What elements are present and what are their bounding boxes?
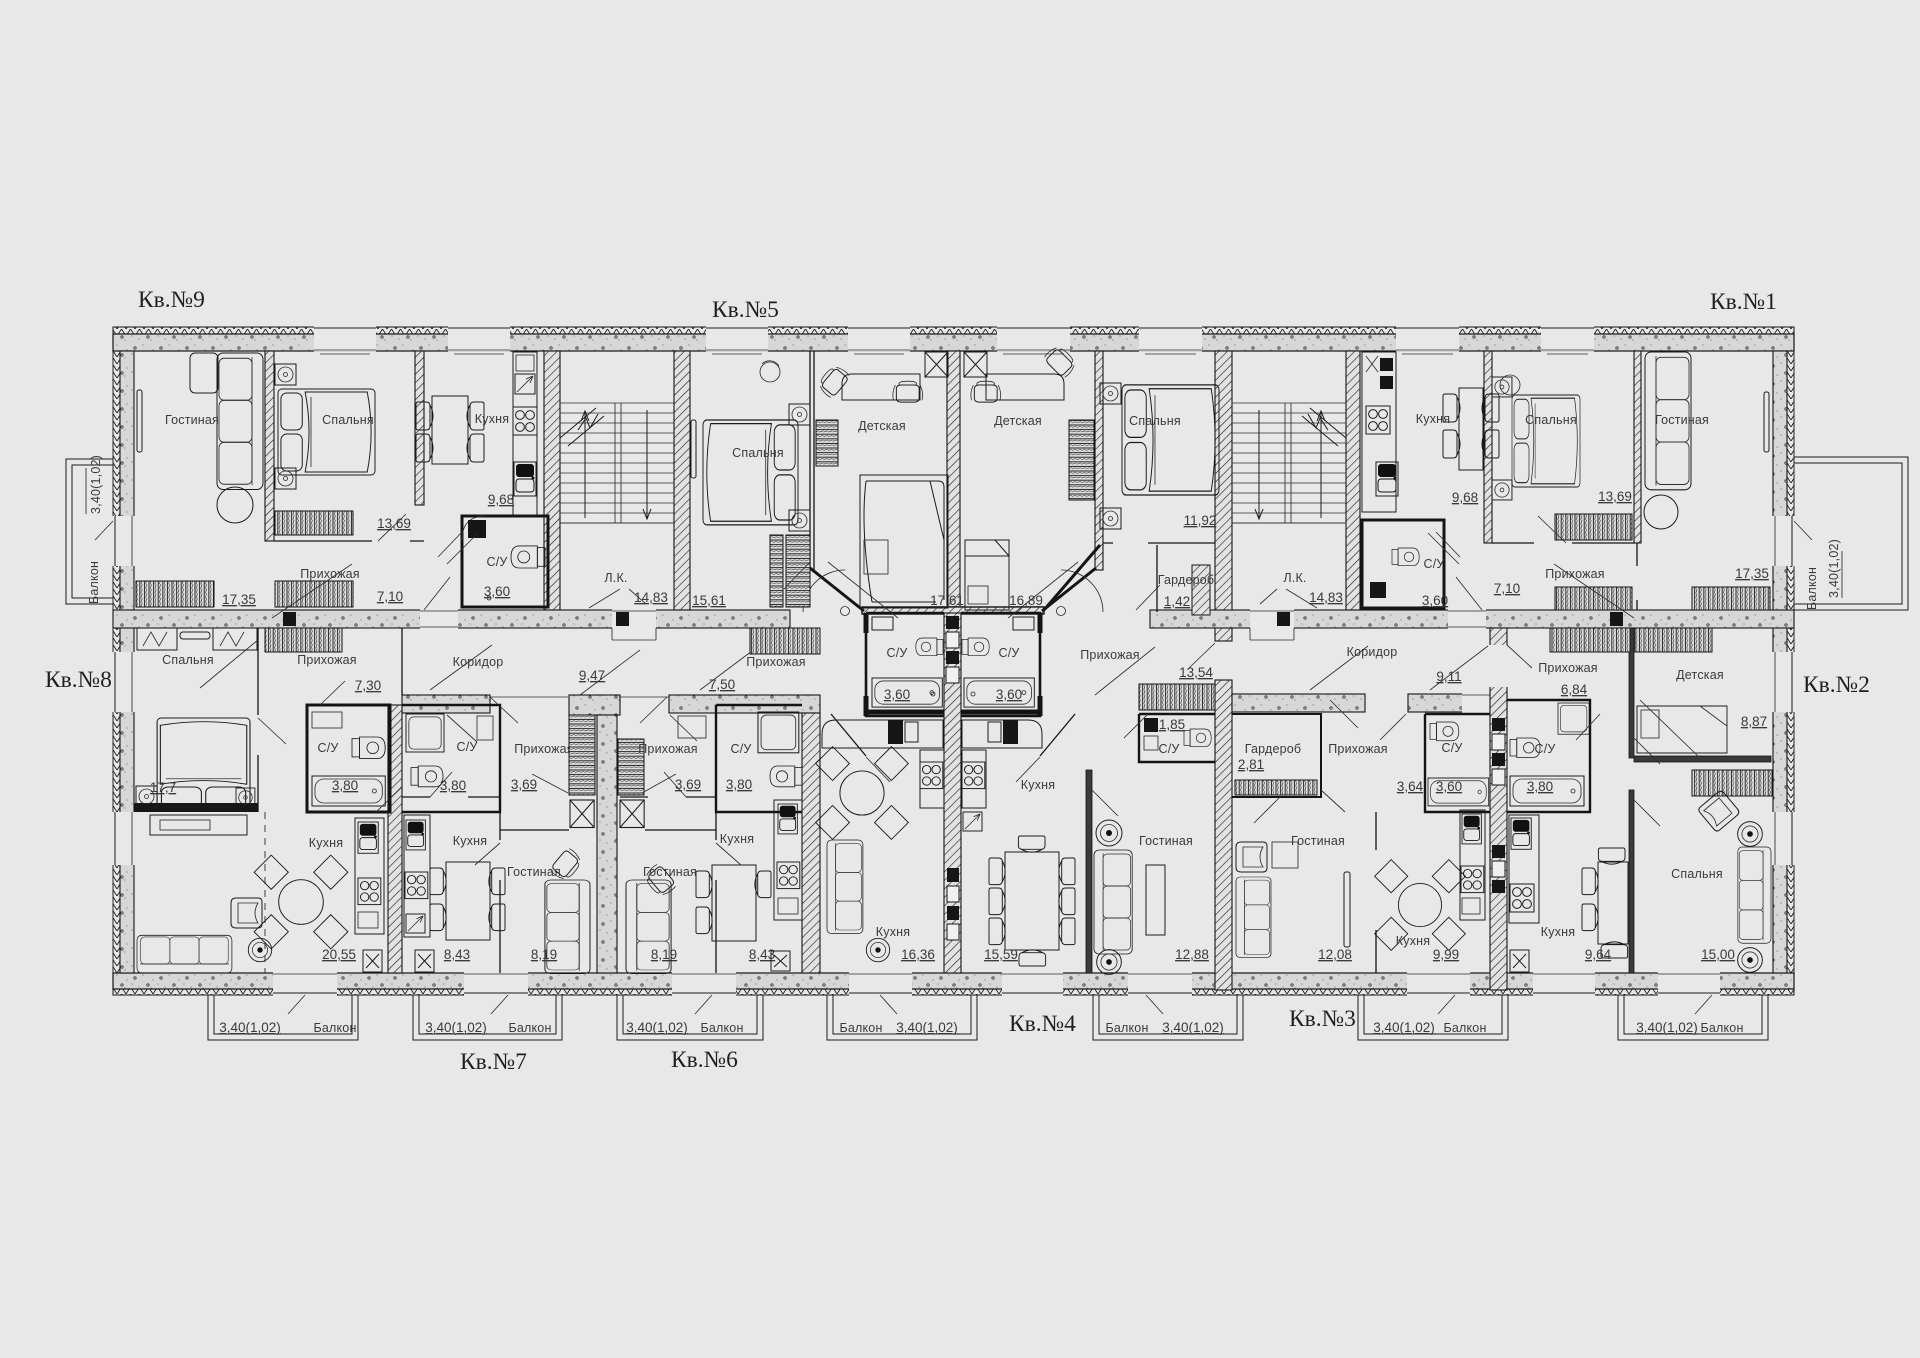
Кв4 children slant to wardrobe	[1044, 545, 1100, 610]
Кв6 kitchen counter	[774, 800, 802, 920]
svg-text:14,83: 14,83	[1309, 590, 1343, 605]
svg-text:С/У: С/У	[317, 741, 338, 755]
svg-text:Кухня: Кухня	[309, 836, 343, 850]
svg-text:8,19: 8,19	[531, 947, 557, 962]
Кв5 lamp	[866, 938, 889, 961]
Кв9 bedroom south wall	[274, 540, 424, 542]
Кв6 kitchen/living wall	[715, 812, 717, 973]
Кв4 bedroom south wall	[1103, 542, 1215, 544]
svg-text:9,64: 9,64	[1585, 947, 1612, 962]
svg-text:14,83: 14,83	[634, 590, 668, 605]
svg-text:Л.К.: Л.К.	[604, 571, 627, 585]
Кв5 wardrobe east	[816, 420, 838, 466]
svg-text:Кв.№1: Кв.№1	[1710, 289, 1777, 315]
svg-text:Кухня: Кухня	[1541, 925, 1575, 939]
Кв8 radiator marks	[137, 628, 257, 650]
central main wall	[1215, 351, 1232, 641]
svg-text:16,36: 16,36	[901, 947, 935, 962]
Кв1 С/У box	[1362, 520, 1444, 608]
Кв7 dining table	[446, 862, 490, 940]
Кв2 bedroom	[1692, 770, 1772, 796]
central wall appliance shaft boxes	[946, 616, 959, 940]
corridor south wall left segment	[402, 695, 490, 713]
Кв4 children bed	[965, 540, 1009, 610]
wall Кв1 bedroom/living	[1634, 351, 1641, 543]
svg-text:С/У: С/У	[486, 555, 507, 569]
Кв4 kitchen side counter	[962, 750, 986, 808]
left wall openings: balcony door + windows	[112, 516, 135, 865]
wall Кв9 living/bedroom	[265, 351, 274, 541]
Кв8 round table	[254, 855, 348, 949]
Кв5 children bed	[860, 475, 948, 608]
Кв3 С/У fixtures	[1428, 778, 1489, 806]
Кв2 С/У box	[1507, 700, 1590, 812]
svg-text:3,40(1,02): 3,40(1,02)	[1162, 1020, 1224, 1035]
Кв6 living chair + sofa	[642, 863, 677, 899]
svg-text:Гардероб: Гардероб	[1245, 742, 1302, 756]
svg-text:1,42: 1,42	[1164, 594, 1190, 609]
Кв4 kitchen top counter	[962, 720, 1042, 748]
Кв5 leader	[828, 562, 898, 618]
Кв6 С/У fixtures	[758, 712, 799, 753]
svg-text:Кв.№8: Кв.№8	[45, 667, 112, 693]
svg-text:12,88: 12,88	[1175, 947, 1209, 962]
svg-text:С/У: С/У	[1423, 557, 1444, 571]
Кв5 nightstands	[789, 404, 810, 425]
svg-text:7,50: 7,50	[709, 677, 735, 692]
svg-text:Прихожая: Прихожая	[514, 742, 574, 756]
Кв1 bedroom south wall	[1492, 542, 1634, 544]
svg-text:6,84: 6,84	[1561, 682, 1588, 697]
mid horizontal wall band left	[113, 610, 790, 628]
bottom balcony 6 (Кв3)	[1358, 995, 1508, 1040]
party wall Кв7/Кв6 dotted	[597, 715, 617, 973]
Кв1 С/У	[1392, 548, 1419, 566]
svg-text:9,68: 9,68	[1452, 490, 1478, 505]
Кв5 hall wardrobe + labels	[750, 628, 820, 654]
party wall Кв6/Кв5 kitchens	[802, 713, 820, 973]
corridor south wall right of stub	[669, 695, 820, 713]
svg-text:3,60: 3,60	[996, 687, 1022, 702]
svg-text:Детская: Детская	[994, 414, 1042, 428]
svg-text:Балкон: Балкон	[1805, 567, 1819, 610]
Кв2 kitchen counters	[1509, 815, 1539, 923]
svg-text:Балкон: Балкон	[313, 1021, 356, 1035]
Кв9 kitchen counter	[513, 352, 537, 515]
right outer wall	[1773, 351, 1794, 973]
Кв4 dining table	[1005, 852, 1059, 950]
svg-text:Кухня: Кухня	[1021, 778, 1055, 792]
svg-text:Спальня: Спальня	[1671, 867, 1723, 881]
Кв8 floor lamp	[248, 938, 271, 961]
svg-text:Прихожая: Прихожая	[1328, 742, 1388, 756]
bottom balcony 4 (Кв5)	[827, 995, 977, 1040]
Кв2 hall/children wall	[1629, 628, 1634, 758]
Кв2 hall wardrobes	[1550, 628, 1630, 652]
Кв9 С/У box	[462, 516, 548, 607]
Кв9 hall wardrobe left	[136, 581, 214, 607]
wall Кв4 kitchen/living	[1086, 770, 1092, 973]
Кв5 sofa	[827, 840, 863, 934]
svg-text:3,64: 3,64	[1397, 779, 1424, 794]
stair break symbol	[560, 408, 604, 446]
Кв3 hall east wall	[1321, 714, 1425, 797]
svg-text:8,43: 8,43	[444, 947, 470, 962]
svg-text:Кв.№2: Кв.№2	[1803, 672, 1870, 698]
svg-text:Гостиная: Гостиная	[507, 865, 561, 879]
Кв3 kitchen	[1375, 860, 1466, 951]
bottom balcony 5 (Кв4)	[1093, 995, 1243, 1040]
Кв9 nightstand bottom	[275, 468, 296, 489]
Кв9 door leaves	[272, 514, 478, 618]
Кв9 С/У basin	[468, 520, 486, 538]
window sills top	[320, 353, 1588, 355]
Кв5 С/У 3,60 box	[866, 613, 944, 716]
svg-text:20,55: 20,55	[322, 947, 356, 962]
svg-text:3,69: 3,69	[675, 777, 701, 792]
svg-text:Балкон: Балкон	[1700, 1021, 1743, 1035]
Кв9 TV	[137, 390, 142, 452]
top outer wall band	[113, 327, 1794, 351]
Кв5 kitchen slant door corner	[1040, 714, 1075, 756]
left stair east wall	[674, 351, 690, 610]
svg-text:17,61: 17,61	[930, 593, 964, 608]
Кв7 С/У box	[402, 705, 500, 812]
svg-text:3,60: 3,60	[884, 687, 910, 702]
Кв8 С/У box	[307, 705, 390, 812]
svg-text:Балкон: Балкон	[1105, 1021, 1148, 1035]
right corridor south wall	[1232, 694, 1365, 712]
Кв1 TV	[1764, 392, 1769, 452]
svg-text:Прихожая: Прихожая	[1545, 567, 1605, 581]
svg-text:С/У: С/У	[1441, 741, 1462, 755]
right stair east wall	[1346, 351, 1360, 610]
svg-text:8,87: 8,87	[1741, 714, 1767, 729]
top wall window openings	[314, 326, 1594, 352]
Кв1 bedroom wardrobe	[1555, 514, 1632, 540]
Кв7 living north wall	[500, 829, 569, 831]
wall Кв9 bedroom/kitchen	[415, 351, 424, 505]
Кв8 living TV stand	[150, 815, 247, 835]
svg-text:Кв.№7: Кв.№7	[460, 1049, 527, 1075]
svg-text:13,69: 13,69	[1598, 489, 1632, 504]
Кв2 children bed	[1637, 706, 1727, 753]
party wall Кв8/Кв7	[388, 705, 402, 973]
Кв1 dining table	[1459, 388, 1483, 470]
svg-text:С/У: С/У	[1158, 742, 1179, 756]
svg-text:Гостиная: Гостиная	[643, 865, 697, 879]
bottom balcony 2 (Кв7)	[413, 995, 562, 1040]
svg-text:3,40(1,02): 3,40(1,02)	[626, 1020, 688, 1035]
Кв5 С/У 3,60 fixtures	[872, 678, 942, 707]
Кв6 dining table	[712, 865, 756, 941]
svg-text:13,69: 13,69	[377, 516, 411, 531]
right side balcony	[1794, 457, 1908, 610]
Кв3 Гардероб closet	[1235, 780, 1317, 795]
Кв8 bed	[157, 718, 250, 810]
svg-text:17,35: 17,35	[222, 592, 256, 607]
svg-text:Балкон: Балкон	[700, 1021, 743, 1035]
svg-text:3,80: 3,80	[332, 778, 358, 793]
Кв4 entry door	[1188, 643, 1215, 669]
svg-text:7,10: 7,10	[1494, 581, 1520, 596]
svg-text:Кухня: Кухня	[1396, 934, 1430, 948]
Кв4 С/У 3,60 fixtures	[964, 678, 1034, 707]
Кв5 children desk	[842, 374, 920, 400]
svg-text:7,10: 7,10	[377, 589, 403, 604]
Кв1 sofa	[1645, 352, 1691, 490]
Кв5 round table	[816, 747, 909, 840]
svg-text:Гардероб: Гардероб	[1158, 573, 1215, 587]
svg-text:Кухня: Кухня	[876, 925, 910, 939]
svg-text:11,92: 11,92	[1184, 513, 1217, 528]
svg-text:17,7: 17,7	[150, 780, 176, 795]
Кв8 hall wardrobe	[265, 628, 342, 652]
Кв8 hall/wc west wall	[401, 628, 403, 695]
svg-text:3,80: 3,80	[1527, 779, 1553, 794]
svg-text:3,80: 3,80	[440, 778, 466, 793]
svg-text:С/У: С/У	[730, 742, 751, 756]
right wall openings	[1772, 516, 1795, 865]
svg-text:3,40(1,02): 3,40(1,02)	[89, 455, 103, 514]
svg-text:12,08: 12,08	[1318, 947, 1352, 962]
svg-text:7,30: 7,30	[355, 678, 381, 693]
svg-text:Спальня: Спальня	[1525, 413, 1577, 427]
bottom outer wall band	[113, 973, 1794, 995]
Кв8 bedroom south wall	[134, 803, 258, 812]
svg-text:15,00: 15,00	[1701, 947, 1735, 962]
party wall center bottom kitchens	[944, 613, 961, 973]
svg-text:Спальня: Спальня	[322, 413, 374, 427]
Кв8 doors	[200, 640, 477, 813]
Кв5 bedroom east wall	[810, 351, 814, 570]
bottom balcony 1 (Кв8)	[208, 995, 358, 1040]
Кв3 kitchen west stubs	[1375, 812, 1377, 973]
svg-text:9,68: 9,68	[488, 492, 514, 507]
svg-text:Балкон: Балкон	[1443, 1021, 1486, 1035]
shaft boxes center top	[925, 352, 948, 377]
Кв9 wardrobe below bedroom	[275, 511, 353, 535]
svg-text:3,40(1,02): 3,40(1,02)	[896, 1020, 958, 1035]
Кв2 children south wall	[1634, 756, 1771, 762]
svg-text:Детская: Детская	[858, 419, 906, 433]
Кв1 living west wall lower stubs	[1636, 543, 1638, 610]
Кв8 С/У fixtures	[352, 737, 385, 759]
Кв9 dining table	[432, 396, 468, 464]
Кв1 rug circle	[1644, 495, 1678, 529]
svg-text:15,61: 15,61	[692, 593, 726, 608]
Кв1 kitchen counter	[1362, 352, 1396, 512]
Кв9 double bed	[278, 389, 375, 475]
Кв3 living	[1236, 842, 1267, 872]
svg-text:Балкон: Балкон	[839, 1021, 882, 1035]
Кв8 kitchen counter	[355, 818, 384, 934]
svg-text:Балкон: Балкон	[87, 561, 101, 604]
Кв6 wardrobe	[618, 739, 644, 795]
svg-text:Гостиная: Гостиная	[1139, 834, 1193, 848]
Кв2 dining table	[1598, 862, 1628, 944]
svg-text:Кухня: Кухня	[453, 834, 487, 848]
svg-text:13,54: 13,54	[1179, 665, 1213, 680]
svg-text:Балкон: Балкон	[508, 1021, 551, 1035]
Кв5 double bed	[703, 420, 798, 525]
dark pilaster blocks in mid band	[283, 612, 296, 626]
Кв7 sofa	[545, 880, 590, 974]
svg-text:3,40(1,02): 3,40(1,02)	[1373, 1020, 1435, 1035]
Кв7 kitchen counter	[404, 815, 430, 937]
svg-text:3,60: 3,60	[1436, 779, 1462, 794]
svg-text:Л.К.: Л.К.	[1283, 571, 1306, 585]
Кв4 С/У 1,85 fixtures	[1184, 729, 1211, 747]
svg-text:3,69: 3,69	[511, 777, 537, 792]
Кв5 kitchen top counter	[822, 720, 943, 748]
Кв4 children door arc	[1061, 570, 1103, 612]
Кв9 rug circle	[217, 487, 253, 523]
svg-text:С/У: С/У	[456, 740, 477, 754]
svg-text:Кв.№3: Кв.№3	[1289, 1006, 1356, 1032]
svg-text:Коридор: Коридор	[453, 655, 504, 669]
svg-text:Прихожая: Прихожая	[1080, 648, 1140, 662]
left stair west wall	[544, 351, 560, 610]
svg-text:Кв.№5: Кв.№5	[712, 297, 779, 323]
svg-text:3,40(1,02): 3,40(1,02)	[425, 1020, 487, 1035]
svg-text:3,60: 3,60	[484, 584, 510, 599]
svg-text:Кухня: Кухня	[475, 412, 509, 426]
Кв3 С/У box	[1425, 714, 1490, 812]
left outer wall	[113, 351, 134, 973]
svg-text:С/У: С/У	[886, 646, 907, 660]
svg-text:3,60: 3,60	[1422, 593, 1448, 608]
Кв7 hall south wall	[402, 796, 500, 798]
svg-text:3,40(1,02): 3,40(1,02)	[1636, 1020, 1698, 1035]
Кв1 hall wardrobes	[1555, 587, 1632, 610]
Кв7 living chair	[549, 847, 584, 883]
svg-text:8,19: 8,19	[651, 947, 677, 962]
svg-text:Спальня: Спальня	[1129, 414, 1181, 428]
Кв3/Кв2 party wall appliance boxes	[1492, 718, 1505, 893]
Кв4 children desk	[986, 374, 1064, 400]
Кв5 children door arc	[803, 570, 845, 612]
svg-text:9,99: 9,99	[1433, 947, 1459, 962]
Кв7 kitchen/living wall	[499, 812, 501, 973]
wall Кв1 kitchen/bedroom	[1484, 351, 1492, 543]
Кв8 armchair	[231, 898, 262, 928]
Кв5 kitchen side counter	[920, 750, 944, 808]
svg-text:С/У: С/У	[1534, 742, 1555, 756]
svg-text:Кв.№4: Кв.№4	[1009, 1011, 1076, 1037]
Кв7 wardrobe	[569, 715, 595, 795]
center wall between children rooms	[947, 351, 960, 613]
svg-text:15,59: 15,59	[984, 947, 1018, 962]
Кв6 living north wall	[645, 829, 716, 831]
svg-text:3,40(1,02): 3,40(1,02)	[1827, 539, 1841, 598]
svg-text:Спальня: Спальня	[162, 653, 214, 667]
svg-text:Гостиная: Гостиная	[165, 413, 219, 427]
svg-text:С/У: С/У	[998, 646, 1019, 660]
Кв4 TV stand	[1146, 865, 1165, 935]
Кв9 С/У toilet	[511, 546, 545, 568]
Кв3 TV panel	[1344, 872, 1350, 947]
Кв5 wardrobe south pair	[770, 535, 783, 607]
svg-text:9,11: 9,11	[1436, 669, 1461, 684]
slant wall Кв5 children corner	[810, 568, 864, 611]
bottom balcony 3 (Кв6)	[617, 995, 763, 1040]
svg-text:Прихожая: Прихожая	[1538, 661, 1598, 675]
svg-text:3,80: 3,80	[726, 777, 752, 792]
svg-text:Прихожая: Прихожая	[638, 742, 698, 756]
Кв5 bedroom clock	[760, 362, 780, 382]
slant wall Кв4 children corner	[1042, 568, 1096, 611]
Кв4 Гардероб west wall	[1156, 545, 1158, 612]
svg-text:1,85: 1,85	[1159, 717, 1185, 732]
svg-text:16,89: 16,89	[1009, 593, 1043, 608]
Кв6 С/У box	[716, 705, 802, 812]
svg-text:3,40(1,02): 3,40(1,02)	[219, 1020, 281, 1035]
svg-text:17,35: 17,35	[1735, 566, 1769, 581]
Кв8 sofa	[137, 935, 232, 973]
wall Кв4 children/bedroom	[1095, 351, 1103, 570]
svg-text:9,47: 9,47	[579, 668, 605, 683]
Кв9 sofa	[217, 353, 263, 490]
Кв2 С/У fixtures	[1558, 703, 1589, 734]
Кв7 shaft	[570, 800, 594, 828]
svg-text:Кв.№6: Кв.№6	[671, 1047, 738, 1073]
Кв4 Гардероб closet	[1192, 565, 1210, 615]
Кв1 bed	[1512, 395, 1580, 487]
svg-text:Спальня: Спальня	[732, 446, 784, 460]
svg-text:Прихожая: Прихожая	[746, 655, 806, 669]
Кв6 hall south wall	[620, 796, 716, 798]
Кв4 bedroom bed	[1122, 385, 1219, 495]
Кв2 kitchen/bedroom wall	[1629, 790, 1634, 973]
svg-text:Кухня: Кухня	[1416, 412, 1450, 426]
stair arrows	[581, 410, 651, 519]
svg-text:Гостиная: Гостиная	[1291, 834, 1345, 848]
Кв4 С/У 1,85 box	[1139, 714, 1215, 762]
svg-text:Гостиная: Гостиная	[1655, 413, 1709, 427]
Кв9 hall wardrobe right	[275, 581, 353, 607]
Кв4 living speakers + sofa	[1096, 820, 1122, 846]
svg-text:2,81: 2,81	[1238, 757, 1264, 772]
Кв7 С/У fixtures	[406, 714, 444, 752]
Кв8 zoning dash	[264, 812, 266, 973]
Кв4 bedroom wardrobe	[1069, 420, 1094, 500]
stair entry stoop	[612, 628, 656, 640]
party wall Кв3/Кв2	[1490, 628, 1507, 990]
svg-text:Прихожая: Прихожая	[297, 653, 357, 667]
Кв5 bedroom door	[784, 562, 810, 589]
Кв4 children desk chairs	[971, 381, 1001, 402]
svg-text:Кв.№9: Кв.№9	[138, 287, 205, 313]
bottom wall balcony-door openings	[273, 972, 1720, 996]
thin hatched wall under children rooms	[862, 607, 1044, 614]
svg-text:Детская: Детская	[1676, 668, 1724, 682]
Кв9 nightstand top	[275, 364, 296, 385]
Кв4 hall wardrobe	[1139, 684, 1215, 710]
Кв8 bedroom east wall	[257, 628, 259, 812]
left side balcony	[66, 459, 113, 604]
corridor south wall stub over Кв7/Кв6	[569, 695, 620, 715]
Кв3 Гардероб box	[1232, 714, 1321, 797]
svg-text:Кухня: Кухня	[720, 832, 754, 846]
Кв5 TV	[691, 420, 696, 478]
Кв4 С/У 3,60 box	[961, 613, 1040, 716]
mid horizontal wall band right	[1150, 610, 1794, 628]
bottom balcony 7 (Кв2)	[1618, 995, 1768, 1040]
